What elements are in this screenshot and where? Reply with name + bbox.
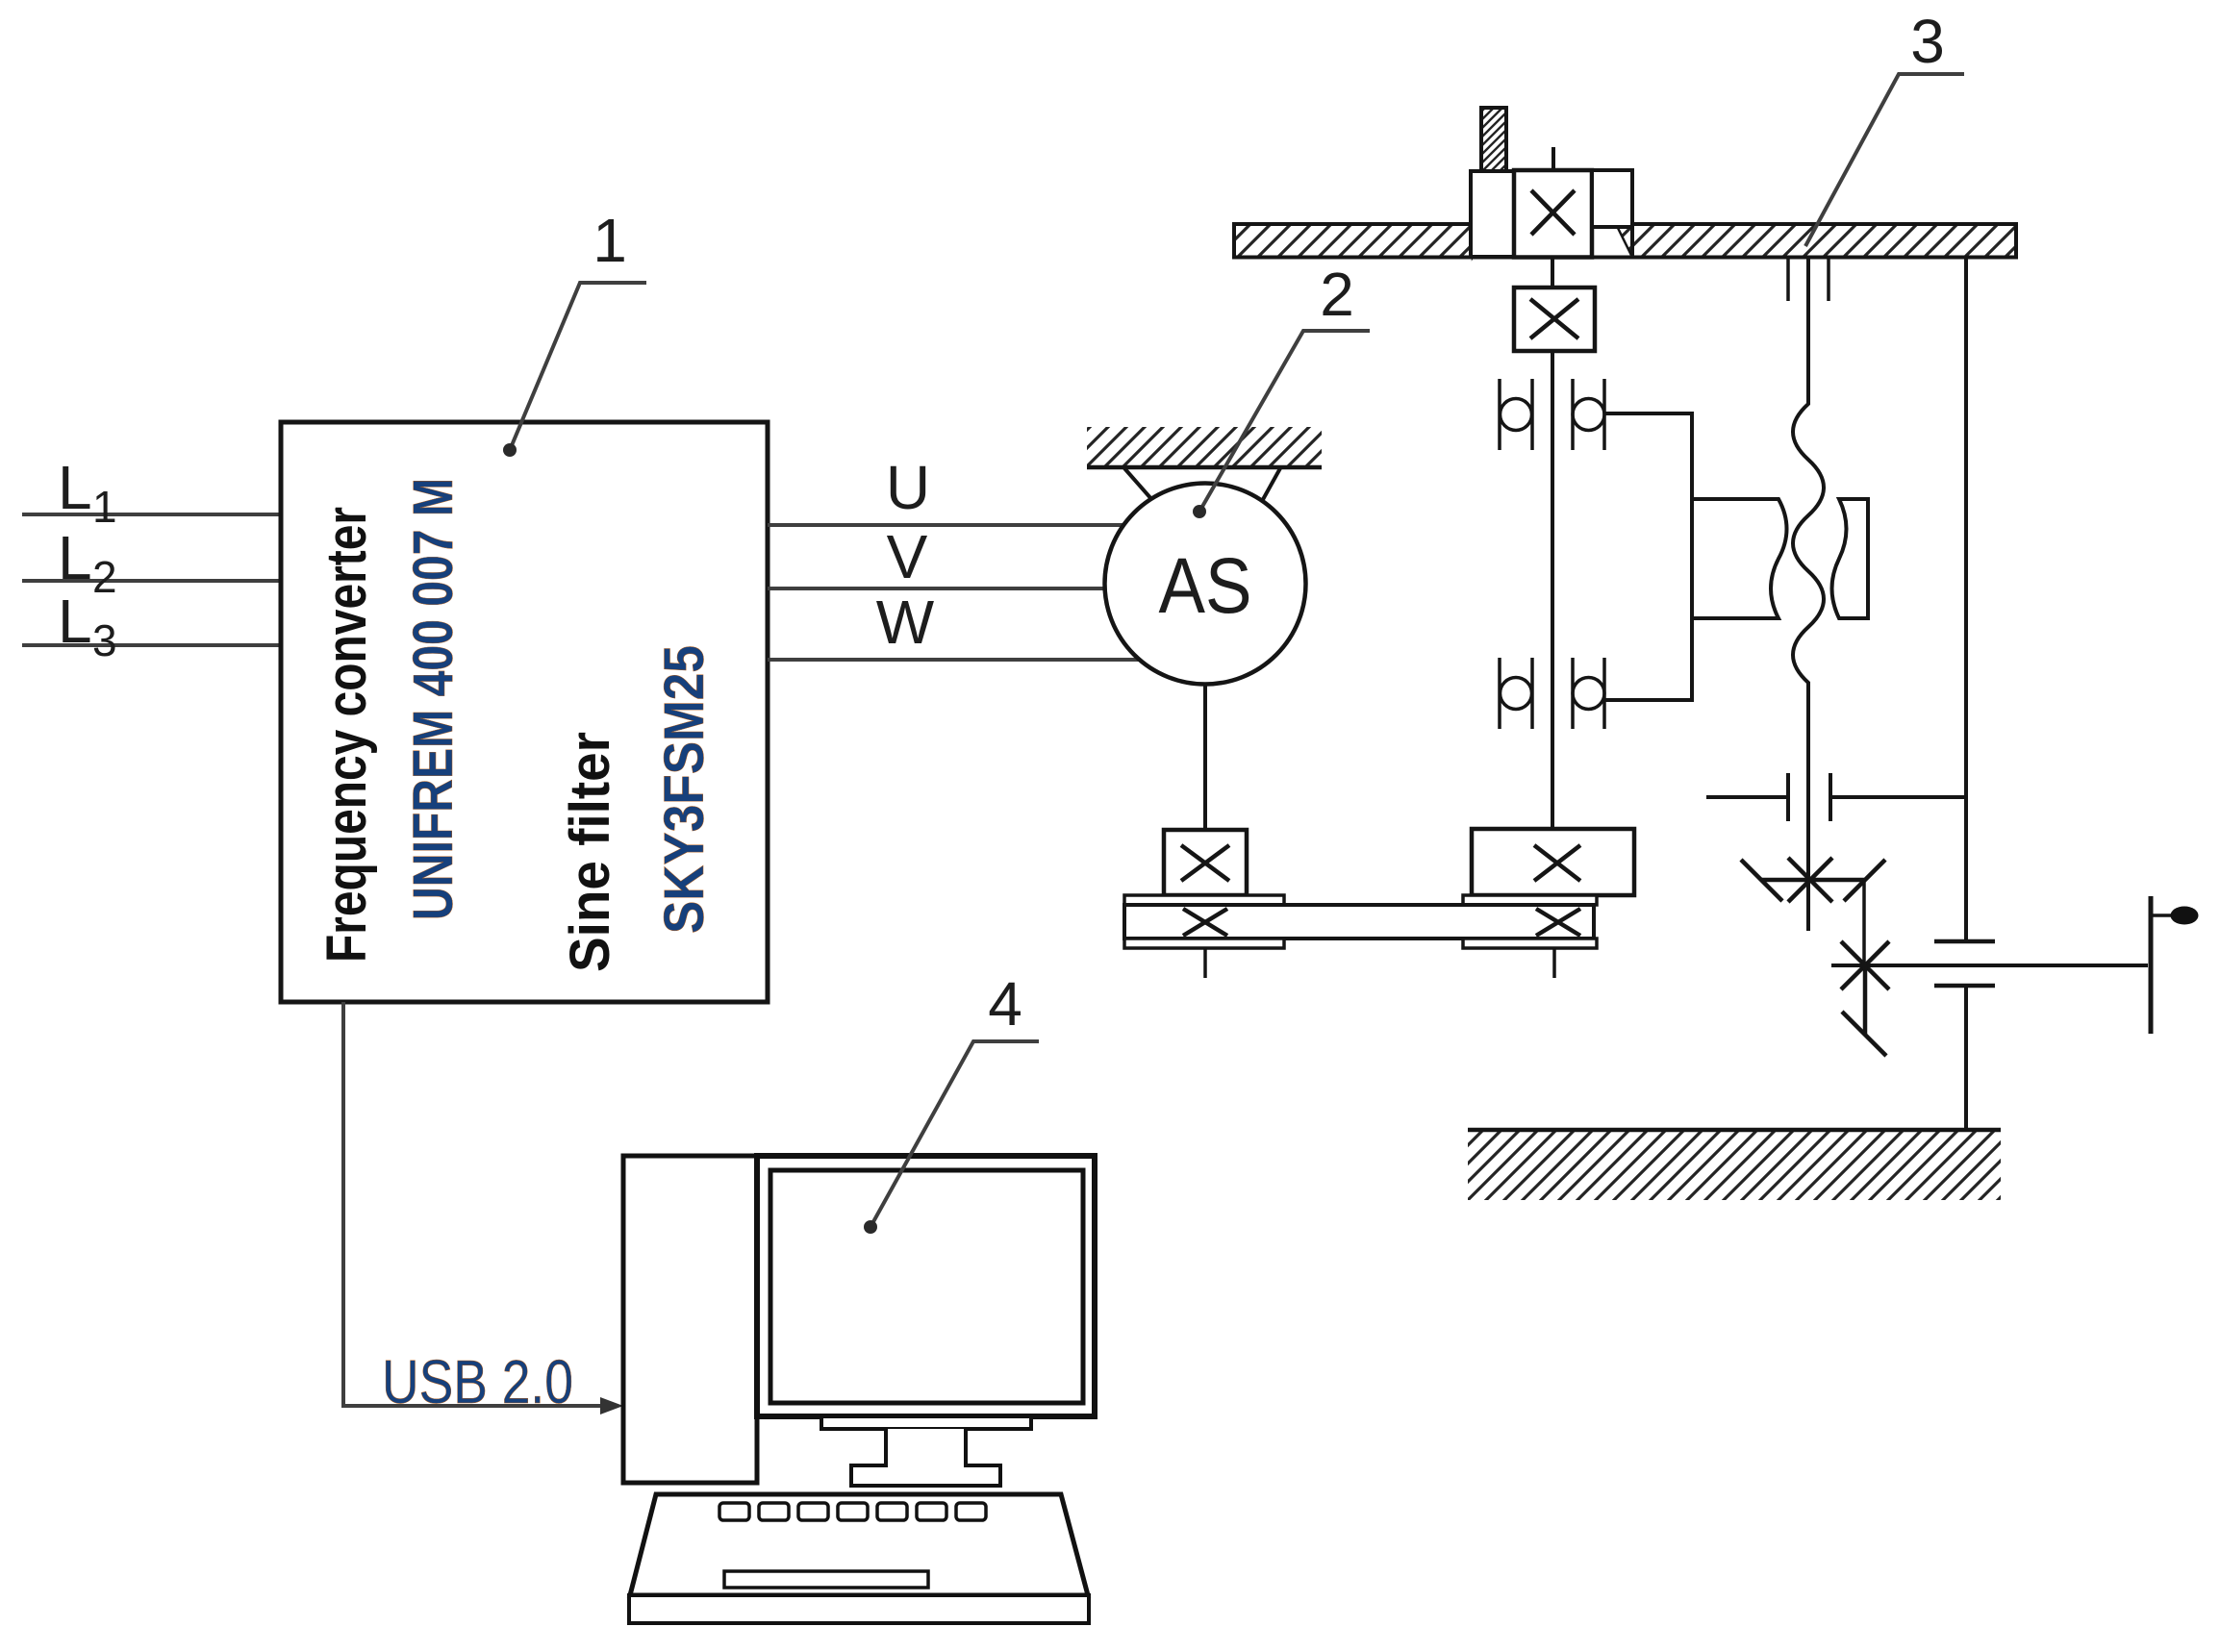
monitor outer frame 4 bbox=[757, 1156, 1095, 1416]
upper right ball bearing bbox=[1573, 379, 1604, 450]
nut block with broken edge bbox=[1832, 499, 1869, 618]
USB wire bbox=[343, 1002, 616, 1406]
motor ceiling line bbox=[1087, 465, 1322, 470]
motor mount leg right bbox=[1261, 468, 1280, 503]
coupling flange strip right bottom bbox=[1463, 939, 1597, 948]
monitor screen bbox=[770, 1170, 1083, 1403]
svg-text:Sine filter: Sine filter bbox=[559, 732, 621, 972]
vertical drive shaft bbox=[1551, 351, 1554, 829]
svg-text:Frequency converter: Frequency converter bbox=[315, 507, 378, 963]
right suspension rod bbox=[1964, 258, 1968, 941]
svg-text:1: 1 bbox=[593, 206, 627, 275]
svg-text:UNIFREM 400 007 M: UNIFREM 400 007 M bbox=[402, 478, 465, 920]
motor AS circle 2 bbox=[1105, 484, 1306, 685]
wire V bbox=[768, 587, 1105, 590]
top plate wedge right bbox=[1616, 224, 1632, 258]
output shaft to handle bbox=[1831, 964, 2148, 967]
gear link vertical bbox=[1862, 880, 1866, 965]
slide mark left bbox=[1786, 258, 1790, 301]
svg-text:3: 3 bbox=[1910, 7, 1945, 76]
svg-text:L: L bbox=[58, 453, 92, 522]
upper coupling right bar bbox=[1829, 773, 1832, 821]
motor shaft bbox=[1203, 685, 1207, 830]
svg-text:L: L bbox=[58, 523, 92, 592]
stub below right flange bbox=[1552, 948, 1556, 978]
top plate hatched bar left segment bbox=[1234, 224, 1473, 258]
space bar bbox=[724, 1571, 928, 1588]
svg-text:L: L bbox=[58, 587, 92, 656]
wire U bbox=[768, 523, 1123, 527]
keyboard front band bbox=[629, 1595, 1089, 1623]
svg-text:4: 4 bbox=[988, 969, 1022, 1039]
wire W bbox=[768, 658, 1140, 662]
long coupling bar with X ends bbox=[1124, 905, 1594, 939]
coupling flange strip left top bbox=[1124, 895, 1284, 905]
keys row bbox=[719, 1503, 986, 1520]
lower right ball bearing bbox=[1573, 658, 1604, 729]
shaft coupling box right with X bbox=[1472, 829, 1634, 895]
svg-text:W: W bbox=[876, 588, 935, 657]
top plate hatched bar right segment bbox=[1632, 224, 2016, 258]
stub below left flange bbox=[1203, 948, 1207, 978]
svg-text:SKY3FSM25: SKY3FSM25 bbox=[653, 645, 716, 934]
upper coupling left line bbox=[1706, 795, 1788, 799]
top plate wedge left bbox=[1473, 224, 1495, 258]
svg-text:AS: AS bbox=[1159, 542, 1252, 630]
USB arrow head bbox=[600, 1397, 623, 1414]
motor ceiling hatch bbox=[1087, 427, 1322, 467]
top bearing flank box left bbox=[1471, 171, 1514, 257]
coupling flange strip right top bbox=[1463, 895, 1597, 905]
bearing housing bracket bbox=[1604, 413, 1692, 700]
hand crank lever bbox=[2149, 896, 2154, 1034]
second bearing box with X bbox=[1514, 288, 1595, 351]
wire L3 bbox=[22, 643, 281, 647]
bevel gear pair upper bbox=[1741, 858, 1885, 902]
slide mark right bbox=[1827, 258, 1830, 301]
label L1 bbox=[58, 453, 117, 532]
wire L1 bbox=[22, 513, 281, 516]
crank stub bbox=[2151, 914, 2172, 917]
frequency converter box 1 bbox=[281, 422, 768, 1002]
monitor ledge bbox=[821, 1416, 1031, 1429]
leader 4 bbox=[870, 1041, 1039, 1227]
svg-text:2: 2 bbox=[92, 552, 117, 602]
lower coupling top bar bbox=[1934, 939, 1995, 944]
shaft stub below plate bbox=[1551, 258, 1554, 288]
coupling flange strip left bottom bbox=[1124, 939, 1284, 948]
top bearing box with X bbox=[1514, 170, 1592, 258]
svg-text:1: 1 bbox=[92, 482, 117, 532]
upper coupling left bar bbox=[1786, 773, 1790, 821]
leader 1 bbox=[510, 283, 646, 450]
ground line bbox=[1468, 1128, 2001, 1133]
bevel gear pair lower bbox=[1841, 941, 1889, 1056]
svg-text:USB 2.0: USB 2.0 bbox=[382, 1347, 573, 1416]
leader 2 bbox=[1199, 331, 1370, 512]
lower left ball bearing bbox=[1500, 658, 1532, 729]
keyboard deck bbox=[630, 1494, 1088, 1595]
label L2 bbox=[58, 523, 117, 602]
top plate bottom line bbox=[1234, 256, 2016, 260]
upper coupling right line bbox=[1830, 795, 1966, 799]
computer tower bbox=[623, 1156, 757, 1483]
motor coupling box with X bbox=[1164, 830, 1247, 895]
wire L2 bbox=[22, 579, 281, 583]
svg-text:U: U bbox=[886, 453, 930, 522]
upper left ball bearing bbox=[1500, 379, 1532, 450]
lower coupling bottom bar bbox=[1934, 984, 1995, 989]
label L3 bbox=[58, 587, 117, 665]
shaft stub above top bearing bbox=[1551, 147, 1555, 170]
top bearing flank box right bbox=[1592, 170, 1632, 227]
monitor pedestal bbox=[851, 1429, 1000, 1486]
svg-text:2: 2 bbox=[1320, 260, 1354, 329]
svg-text:V: V bbox=[887, 522, 928, 591]
leader 3 bbox=[1805, 74, 1964, 246]
hatched key rod bbox=[1481, 108, 1506, 172]
motor mount leg left bbox=[1124, 468, 1152, 500]
screw shaft wavy line bbox=[1793, 258, 1824, 931]
crank knob bbox=[2171, 907, 2199, 925]
ground hatch bbox=[1468, 1131, 2001, 1200]
svg-text:3: 3 bbox=[92, 615, 117, 665]
housing boss with broken edge bbox=[1692, 499, 1787, 618]
